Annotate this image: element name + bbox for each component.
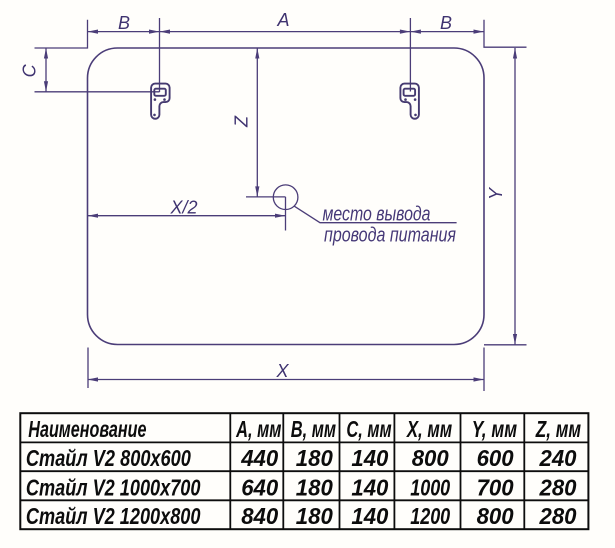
- svg-text:A, мм: A, мм: [235, 416, 281, 442]
- dimension Z line: [256, 48, 258, 197]
- node hole center cross: [246, 197, 286, 231]
- svg-text:640: 640: [241, 474, 278, 500]
- svg-text:Y: Y: [486, 186, 506, 200]
- svg-text:Стайл V2 800х600: Стайл V2 800х600: [26, 445, 191, 471]
- svg-text:Стайл V2 1000х700: Стайл V2 1000х700: [26, 474, 201, 500]
- svg-text:140: 140: [351, 474, 388, 500]
- bracket right: [400, 84, 419, 119]
- svg-text:800: 800: [477, 503, 514, 529]
- svg-text:840: 840: [241, 503, 278, 529]
- svg-text:240: 240: [539, 445, 577, 471]
- table grid: [20, 413, 588, 529]
- svg-text:B: B: [118, 13, 130, 33]
- svg-text:180: 180: [296, 445, 333, 471]
- svg-text:700: 700: [477, 474, 514, 500]
- mirror outline: [88, 48, 485, 345]
- svg-text:140: 140: [351, 445, 388, 471]
- arrow A right / B right-start: [400, 30, 411, 34]
- svg-text:180: 180: [296, 474, 333, 500]
- svg-text:280: 280: [539, 474, 577, 500]
- dimension B left line: [88, 31, 160, 33]
- wire bottom-left extension: [87, 348, 89, 389]
- svg-text:600: 600: [477, 445, 514, 471]
- wire top-right extension L: [484, 20, 527, 47]
- wire bottom-right extension L: [484, 345, 527, 391]
- svg-text:X: X: [275, 361, 289, 381]
- dimension X/2 line: [88, 215, 286, 217]
- svg-text:440: 440: [240, 445, 278, 471]
- svg-text:1200: 1200: [410, 503, 450, 529]
- arrow X/2 left: [88, 214, 99, 218]
- arrow Z bottom: [255, 186, 259, 197]
- svg-text:140: 140: [351, 503, 388, 529]
- power outlet circle: [273, 185, 298, 210]
- arrow Y bottom: [513, 334, 517, 345]
- arrow X right: [474, 377, 485, 381]
- arrowheads: [44, 30, 517, 382]
- arrow C bottom: [44, 81, 48, 92]
- dimension B right line: [410, 31, 484, 33]
- svg-text:A: A: [276, 10, 289, 30]
- arrow B right at tick / A left: [149, 30, 160, 34]
- arrow Y top: [513, 48, 517, 59]
- svg-text:Стайл V2 1200х800: Стайл V2 1200х800: [26, 503, 201, 529]
- wire right bracket centerline: [409, 18, 411, 92]
- svg-text:Y, мм: Y, мм: [472, 416, 517, 442]
- svg-text:место вывода: место вывода: [323, 204, 431, 226]
- svg-text:1000: 1000: [410, 474, 450, 500]
- svg-text:Z: Z: [232, 115, 252, 128]
- arrow C top: [44, 48, 48, 59]
- svg-text:провода питания: провода питания: [324, 225, 456, 247]
- arrow B left: [88, 30, 99, 34]
- svg-text:Наименование: Наименование: [28, 416, 146, 442]
- svg-text:Z, мм: Z, мм: [535, 416, 581, 442]
- svg-text:X, мм: X, мм: [405, 416, 452, 442]
- arrow X/2 right: [275, 214, 286, 218]
- dimension C line: [45, 48, 47, 92]
- dimension X line: [88, 379, 485, 381]
- svg-text:180: 180: [296, 503, 333, 529]
- wire C hang reference line: [35, 91, 160, 93]
- arrow B far right: [474, 30, 485, 34]
- svg-text:B, мм: B, мм: [291, 416, 336, 442]
- bracket left: [151, 84, 170, 119]
- arrow Z top: [255, 48, 259, 59]
- leader line to note: [294, 206, 456, 223]
- arrow X left: [88, 377, 99, 381]
- svg-text:C: C: [19, 63, 39, 77]
- svg-text:280: 280: [539, 503, 577, 529]
- svg-text:B: B: [440, 13, 452, 33]
- wire left bracket centerline: [159, 18, 161, 92]
- svg-text:C, мм: C, мм: [346, 416, 391, 442]
- dimension Y line: [514, 48, 516, 345]
- svg-text:X/2: X/2: [169, 198, 197, 218]
- wire top-left extension L: [35, 20, 88, 48]
- svg-text:800: 800: [412, 445, 449, 471]
- dimension A line: [160, 31, 411, 33]
